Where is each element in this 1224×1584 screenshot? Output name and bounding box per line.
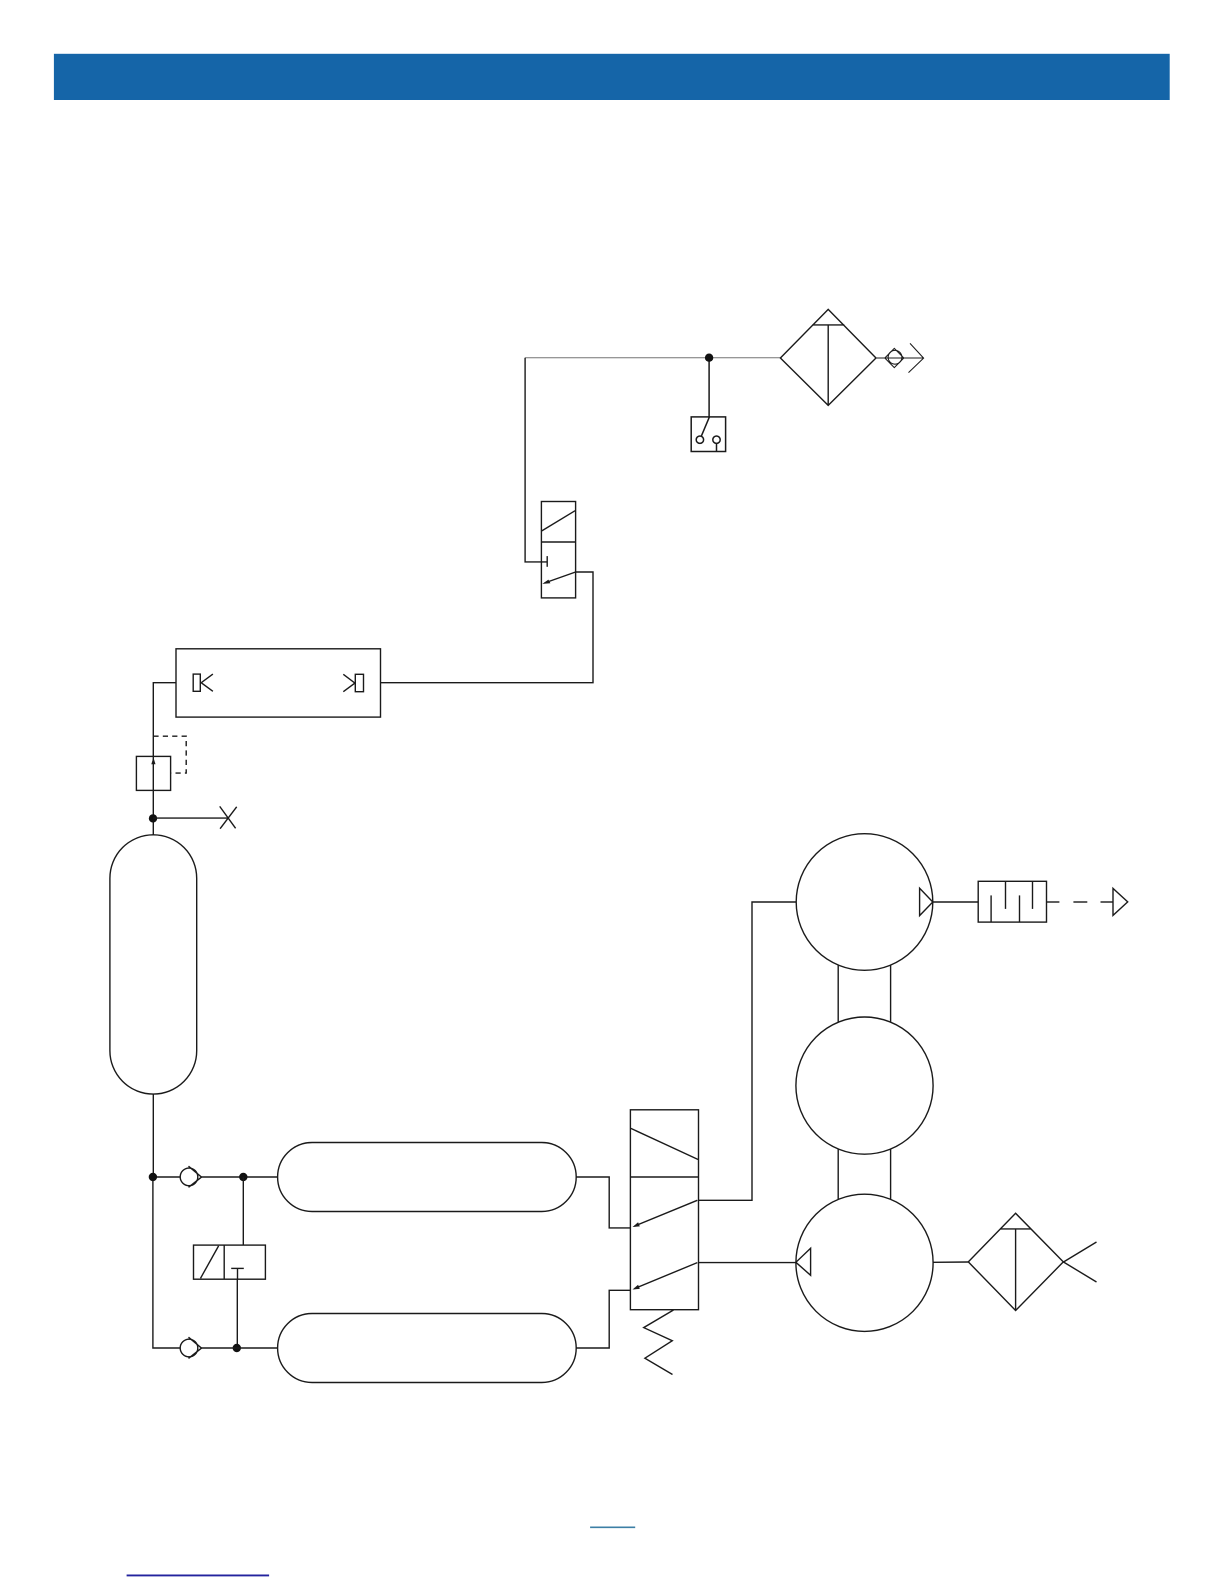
wire main supply line bbox=[525, 357, 780, 359]
wire V2 to compressor stage 1 inlet bbox=[699, 902, 797, 1200]
unloader valve V1 (2/2) bbox=[541, 502, 575, 598]
wire SV1 to junction J5 bbox=[236, 1279, 238, 1348]
exhaust dashed line bbox=[1047, 901, 1114, 903]
interstage link P2-P3 bbox=[838, 1086, 890, 1263]
cooling coil C1 bbox=[278, 1143, 577, 1212]
wire CV2 to coil C2 bbox=[202, 1347, 278, 1349]
inlet triangle of P3 bbox=[796, 1248, 811, 1275]
pressure switch PS1 bbox=[691, 417, 725, 452]
check valve CV1 bbox=[180, 1166, 201, 1187]
return spring of V2 bbox=[644, 1310, 674, 1375]
water separator WS2 bbox=[968, 1213, 1063, 1310]
wire CV1 to coil C1 bbox=[202, 1176, 278, 1178]
header bar bbox=[54, 54, 1170, 100]
footer link navy bbox=[127, 1574, 270, 1576]
node junction J5 bbox=[233, 1344, 241, 1352]
node junction J1 bbox=[705, 354, 713, 362]
wire junction to pressure switch bbox=[708, 358, 710, 418]
wire tank bottom to junction J3 bbox=[152, 1094, 154, 1177]
node junction J2 bbox=[149, 814, 157, 822]
muffler M1 bbox=[978, 881, 1046, 922]
wire C2 to valve V2 lower port bbox=[576, 1290, 631, 1348]
wire pilot line to unloader valve V1 bbox=[525, 358, 547, 562]
solenoid drain valve SV1 bbox=[194, 1245, 266, 1279]
wire J3 to check valve CV1 bbox=[153, 1176, 180, 1178]
interstage link P1-P2 bbox=[838, 902, 890, 1086]
wire R1 inlet down through regulator to junction J2 bbox=[153, 683, 176, 835]
pressure regulator RV1 bbox=[136, 756, 170, 790]
pilot seat tick of V1 bbox=[546, 556, 548, 567]
wire test port bbox=[153, 817, 228, 819]
check valve CV2 bbox=[180, 1337, 201, 1358]
plugged drain port of WS2 bbox=[1064, 1242, 1097, 1282]
plugged test port X bbox=[220, 806, 237, 828]
wire C1 to valve V2 upper port bbox=[576, 1177, 631, 1228]
pilot line dashed of regulator bbox=[153, 736, 186, 773]
wire left rail to bottom row bbox=[153, 1177, 180, 1348]
compressor stage 2 P2 bbox=[796, 1017, 933, 1154]
compressor stage 1 P1 bbox=[796, 834, 933, 971]
wire P3 to separator WS2 bbox=[933, 1261, 968, 1263]
membrane dryer R1 bbox=[176, 649, 381, 717]
wire V2 to compressor stage 3 inlet bbox=[699, 1262, 796, 1264]
automatic drain outlet of WS1 bbox=[876, 343, 924, 372]
compressor stage 3 P3 bbox=[796, 1194, 933, 1331]
cooling coil C2 bbox=[278, 1314, 577, 1383]
outlet triangle of P1 bbox=[920, 888, 933, 915]
receiver tank T1 bbox=[110, 835, 197, 1094]
footer link teal bbox=[590, 1526, 635, 1528]
wire J4 down to solenoid drain valve bbox=[242, 1177, 244, 1245]
inlet control valve V2 bbox=[630, 1110, 698, 1310]
wire V1 outlet to dryer R1 bbox=[381, 572, 594, 683]
wire P1 to muffler bbox=[933, 901, 978, 903]
water separator WS1 bbox=[780, 309, 876, 405]
exhaust arrow bbox=[1113, 888, 1128, 915]
node junction J4 bbox=[239, 1173, 247, 1181]
node junction J3 bbox=[149, 1173, 157, 1181]
